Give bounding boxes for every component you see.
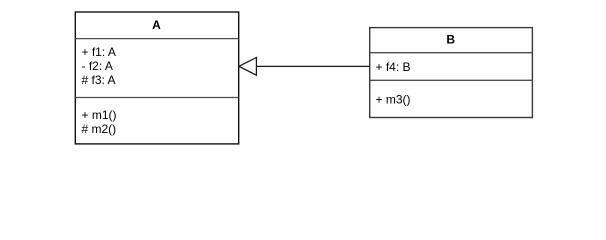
svg-text:+ m1(): + m1() — [82, 108, 117, 122]
class B attributes/operations divider — [370, 79, 533, 81]
generalization hollow triangle arrowhead at A — [239, 58, 257, 76]
class B box — [370, 28, 533, 118]
class A name compartment divider — [75, 38, 238, 40]
operation m2 — [82, 122, 117, 136]
class B name compartment divider — [370, 52, 533, 54]
class A box — [75, 12, 238, 144]
class A attributes/operations divider — [75, 97, 238, 99]
svg-text:B: B — [446, 33, 455, 47]
class A name label — [152, 18, 161, 32]
svg-text:+ f4: B: + f4: B — [376, 60, 411, 74]
svg-text:- f2: A: - f2: A — [82, 59, 113, 73]
attribute f1 — [82, 45, 116, 59]
class B name label — [446, 33, 455, 47]
svg-text:+ f1: A: + f1: A — [82, 45, 116, 59]
operation m1 — [82, 108, 117, 122]
operation m3 — [376, 92, 411, 106]
attribute f4 — [376, 60, 411, 74]
svg-text:A: A — [152, 18, 161, 32]
attribute f3 — [82, 73, 116, 87]
svg-text:+ m3(): + m3() — [376, 92, 411, 106]
svg-text:# f3: A: # f3: A — [82, 73, 116, 87]
svg-text:# m2(): # m2() — [82, 122, 117, 136]
generalization line from B to A — [256, 65, 369, 67]
attribute f2 — [82, 59, 113, 73]
